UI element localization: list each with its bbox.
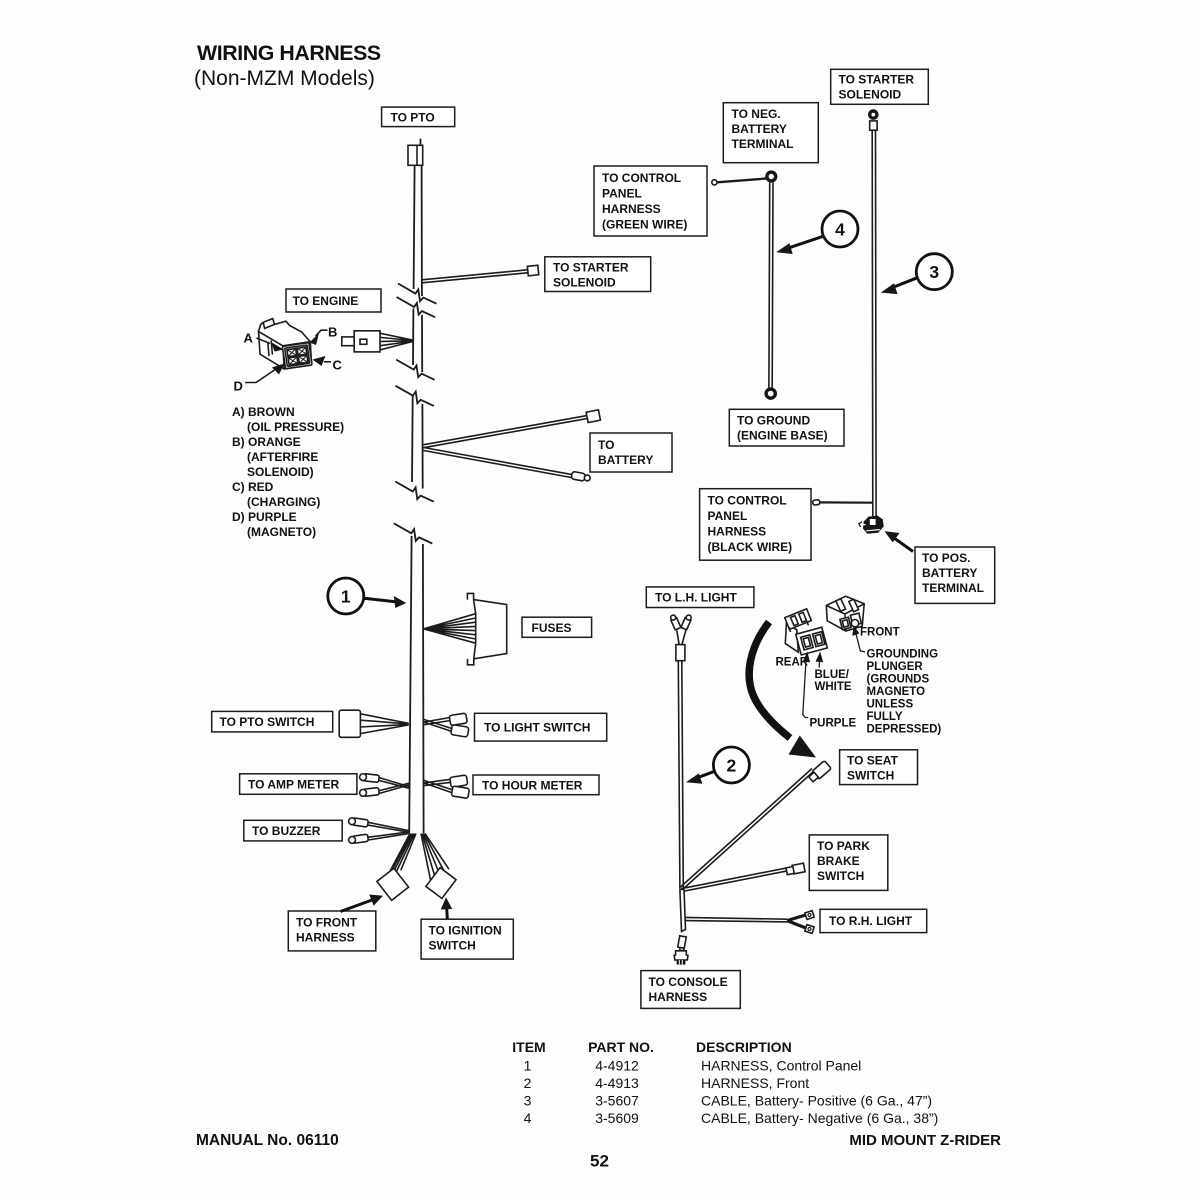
- bottom fan to front harness connector: [377, 834, 416, 901]
- pin label C: [313, 356, 343, 373]
- svg-text:TO STARTER: TO STARTER: [553, 260, 629, 274]
- amp meter bullets and wires: [359, 773, 409, 797]
- wire to battery (upper): [423, 410, 600, 448]
- wire harness main trunk (left line segments): [409, 165, 414, 833]
- svg-text:ITEM: ITEM: [512, 1039, 545, 1055]
- pin label B: [310, 325, 338, 346]
- hour meter plugs and wires: [423, 775, 469, 799]
- svg-text:4-4912: 4-4912: [595, 1058, 639, 1074]
- svg-text:4: 4: [835, 219, 845, 239]
- circled 1: [328, 578, 407, 614]
- circled 4 with arrow: [776, 211, 858, 254]
- svg-text:CABLE, Battery- Negative (6 Ga: CABLE, Battery- Negative (6 Ga., 38”): [701, 1110, 938, 1126]
- svg-text:TO NEG.: TO NEG.: [732, 107, 781, 121]
- svg-text:3-5609: 3-5609: [595, 1110, 639, 1126]
- svg-text:WHITE: WHITE: [815, 681, 852, 693]
- svg-text:TO AMP METER: TO AMP METER: [248, 778, 339, 792]
- bottom fan to ignition connector: [421, 834, 456, 899]
- wire to starter solenoid (mid): [422, 265, 539, 283]
- engine connector (4-pin isometric): [259, 319, 313, 369]
- svg-text:B: B: [328, 325, 337, 340]
- svg-text:TERMINAL: TERMINAL: [732, 137, 794, 151]
- svg-text:PLUNGER: PLUNGER: [867, 661, 924, 673]
- svg-text:BLUE/: BLUE/: [815, 669, 850, 681]
- label box TO HOUR METER: [473, 775, 599, 795]
- svg-text:(ENGINE BASE): (ENGINE BASE): [737, 428, 828, 442]
- svg-text:TO ENGINE: TO ENGINE: [293, 294, 359, 308]
- svg-text:1: 1: [341, 586, 351, 606]
- label box TO CONTROL PANEL HARNESS (GREEN WIRE): [594, 166, 707, 236]
- wire to park brake switch: [681, 863, 805, 891]
- leader blue/white: [816, 652, 824, 668]
- svg-text:HARNESS, Front: HARNESS, Front: [701, 1075, 809, 1091]
- svg-text:MANUAL No. 06110: MANUAL No. 06110: [196, 1132, 339, 1149]
- wire to battery (lower): [423, 447, 591, 482]
- label box TO AMP METER: [240, 774, 357, 795]
- break symbol at 481: [395, 482, 434, 502]
- connector at top (PTO plug): [408, 139, 423, 166]
- svg-text:52: 52: [590, 1152, 609, 1171]
- pin label A: [244, 331, 284, 352]
- ring terminal top of cable 3: [868, 109, 879, 130]
- label box TO CONTROL PANEL HARNESS (BLACK WIRE): [700, 489, 811, 561]
- svg-text:TO STARTER: TO STARTER: [839, 73, 915, 87]
- pin label D: [234, 364, 285, 394]
- svg-text:DEPRESSED): DEPRESSED): [867, 724, 942, 736]
- svg-text:TO PTO SWITCH: TO PTO SWITCH: [220, 715, 315, 729]
- svg-text:A) BROWN: A) BROWN: [232, 405, 295, 419]
- svg-text:4: 4: [524, 1110, 532, 1126]
- green wire from control panel box: [712, 179, 767, 185]
- wire to seat switch: [681, 761, 832, 890]
- svg-text:TO CONTROL: TO CONTROL: [602, 171, 681, 185]
- svg-text:FRONT: FRONT: [860, 627, 900, 639]
- label box TO CONSOLE HARNESS: [641, 971, 740, 1009]
- break symbol at 523: [394, 523, 433, 543]
- svg-text:FUSES: FUSES: [532, 621, 572, 635]
- svg-text:(Non-MZM Models): (Non-MZM Models): [194, 67, 375, 90]
- svg-text:SWITCH: SWITCH: [429, 939, 476, 953]
- light switch plugs and wires: [423, 713, 469, 737]
- ring terminal bottom of cable 4: [766, 389, 775, 398]
- label box TO STARTER SOLENOID (top): [831, 69, 929, 104]
- svg-text:TO PTO: TO PTO: [391, 110, 435, 124]
- svg-text:WIRING HARNESS: WIRING HARNESS: [197, 41, 381, 65]
- svg-text:(BLACK WIRE): (BLACK WIRE): [708, 540, 793, 554]
- title: [194, 41, 381, 90]
- fuses connector: [424, 593, 507, 664]
- svg-text:TO L.H. LIGHT: TO L.H. LIGHT: [655, 591, 737, 605]
- svg-text:TERMINAL: TERMINAL: [922, 581, 984, 595]
- front harness lower stub: [680, 890, 686, 932]
- front harness vertical wire: [678, 661, 683, 889]
- svg-text:UNLESS: UNLESS: [867, 699, 914, 711]
- cable 4 wire: [769, 183, 773, 388]
- label box TO BUZZER: [244, 820, 342, 841]
- svg-text:C) RED: C) RED: [232, 480, 274, 494]
- svg-text:SOLENOID): SOLENOID): [247, 465, 314, 479]
- label box TO LIGHT SWITCH: [475, 713, 607, 741]
- L.H. light fork terminals: [669, 614, 692, 661]
- svg-text:SOLENOID: SOLENOID: [553, 275, 616, 289]
- parts table: [512, 1039, 938, 1126]
- wire to R.H. light: [685, 911, 815, 934]
- engine plug on harness: [342, 331, 413, 352]
- REAR connector (isometric): [785, 609, 828, 655]
- svg-text:TO IGNITION: TO IGNITION: [429, 924, 502, 938]
- label box TO NEG. BATTERY TERMINAL: [723, 103, 818, 163]
- label box TO L.H. LIGHT: [646, 587, 754, 608]
- svg-text:(OIL PRESSURE): (OIL PRESSURE): [247, 420, 344, 434]
- label box TO IGNITION SWITCH: [421, 919, 513, 959]
- break symbol at 360: [396, 360, 435, 380]
- svg-text:BATTERY: BATTERY: [598, 453, 653, 467]
- cable 3 wire: [872, 130, 876, 517]
- svg-text:(MAGNETO): (MAGNETO): [247, 525, 316, 539]
- console harness connector: [674, 936, 688, 965]
- leader grounding plunger: [852, 625, 865, 652]
- arrow to front harness connector: [341, 895, 384, 912]
- svg-text:A: A: [244, 331, 254, 346]
- positive battery terminal clamp: [859, 516, 884, 534]
- svg-text:BRAKE: BRAKE: [817, 854, 860, 868]
- svg-text:(GROUNDS: (GROUNDS: [867, 674, 930, 686]
- black wire from control panel box to cable 3: [813, 500, 873, 506]
- svg-text:TO SEAT: TO SEAT: [847, 753, 899, 767]
- label box TO SEAT SWITCH: [840, 750, 918, 785]
- svg-text:TO LIGHT SWITCH: TO LIGHT SWITCH: [484, 720, 590, 734]
- svg-text:PANEL: PANEL: [602, 186, 642, 200]
- svg-text:TO PARK: TO PARK: [817, 839, 870, 853]
- svg-text:BATTERY: BATTERY: [922, 566, 977, 580]
- arrow to ignition connector: [441, 897, 453, 919]
- svg-text:GROUNDING: GROUNDING: [867, 649, 939, 661]
- svg-text:SOLENOID: SOLENOID: [839, 88, 902, 102]
- buzzer bullets and wires: [348, 817, 409, 844]
- svg-text:PANEL: PANEL: [708, 509, 748, 523]
- footer: [196, 1132, 1001, 1171]
- FRONT connector (isometric): [826, 596, 864, 631]
- break symbol pair upper: [397, 284, 437, 318]
- svg-text:(CHARGING): (CHARGING): [247, 495, 320, 509]
- svg-text:TO: TO: [598, 438, 614, 452]
- svg-text:MID MOUNT Z-RIDER: MID MOUNT Z-RIDER: [849, 1132, 1001, 1149]
- label box TO PARK BRAKE SWITCH: [809, 835, 888, 891]
- thick curved arrow: [749, 622, 816, 758]
- svg-text:FULLY: FULLY: [867, 711, 903, 723]
- svg-text:TO GROUND: TO GROUND: [737, 413, 810, 427]
- svg-text:3: 3: [929, 262, 939, 282]
- circled 3 with arrow: [881, 254, 953, 294]
- svg-text:SWITCH: SWITCH: [847, 768, 894, 782]
- ring terminal top of cable 4: [767, 172, 776, 181]
- svg-text:CABLE, Battery- Positive (6 Ga: CABLE, Battery- Positive (6 Ga., 47”): [701, 1093, 932, 1109]
- svg-text:D: D: [234, 379, 243, 394]
- label box TO GROUND (ENGINE BASE): [729, 409, 844, 446]
- svg-text:HARNESS: HARNESS: [602, 202, 661, 216]
- svg-text:3: 3: [524, 1093, 532, 1109]
- svg-text:PURPLE: PURPLE: [810, 718, 857, 730]
- svg-text:TO FRONT: TO FRONT: [296, 915, 358, 929]
- label box TO ENGINE: [286, 289, 381, 312]
- svg-text:3-5607: 3-5607: [595, 1093, 639, 1109]
- svg-text:TO HOUR METER: TO HOUR METER: [482, 779, 583, 793]
- svg-text:MAGNETO: MAGNETO: [867, 686, 926, 698]
- svg-text:TO CONSOLE: TO CONSOLE: [649, 975, 728, 989]
- label box TO PTO SWITCH: [212, 711, 333, 732]
- svg-text:TO CONTROL: TO CONTROL: [708, 493, 787, 507]
- svg-text:HARNESS: HARNESS: [296, 930, 355, 944]
- svg-text:TO R.H. LIGHT: TO R.H. LIGHT: [829, 914, 913, 928]
- connector area labels: [776, 627, 942, 736]
- label box TO BATTERY: [590, 433, 672, 472]
- label box TO STARTER SOLENOID (mid): [545, 257, 651, 292]
- wire harness main trunk (right line segments): [422, 165, 424, 833]
- wire color legend text: [232, 405, 344, 539]
- label box TO PTO: [382, 107, 455, 127]
- svg-text:HARNESS: HARNESS: [649, 990, 708, 1004]
- svg-text:DESCRIPTION: DESCRIPTION: [696, 1039, 792, 1055]
- arrow from TO POS. BATTERY TERMINAL box to clamp: [885, 531, 914, 551]
- svg-text:TO BUZZER: TO BUZZER: [252, 824, 321, 838]
- svg-text:HARNESS, Control Panel: HARNESS, Control Panel: [701, 1058, 861, 1074]
- svg-text:2: 2: [524, 1075, 532, 1091]
- svg-text:(AFTERFIRE: (AFTERFIRE: [247, 450, 318, 464]
- svg-text:4-4913: 4-4913: [595, 1075, 639, 1091]
- svg-text:HARNESS: HARNESS: [708, 524, 767, 538]
- leader purple: [803, 652, 810, 718]
- svg-text:C: C: [333, 358, 343, 373]
- svg-text:SWITCH: SWITCH: [817, 869, 864, 883]
- label box TO FRONT HARNESS: [288, 911, 376, 951]
- svg-text:D) PURPLE: D) PURPLE: [232, 510, 297, 524]
- svg-text:REAR: REAR: [776, 657, 809, 669]
- svg-text:1: 1: [524, 1058, 532, 1074]
- pto switch connector: [339, 710, 409, 737]
- circled 2 with arrow: [686, 747, 749, 784]
- label box TO R.H. LIGHT: [820, 909, 927, 932]
- break symbol at 386: [395, 386, 434, 406]
- label box TO POS. BATTERY TERMINAL: [915, 547, 995, 603]
- svg-text:B) ORANGE: B) ORANGE: [232, 435, 301, 449]
- label box FUSES: [522, 617, 592, 637]
- svg-text:(GREEN WIRE): (GREEN WIRE): [602, 217, 687, 231]
- svg-text:2: 2: [727, 755, 737, 775]
- svg-text:TO POS.: TO POS.: [922, 551, 970, 565]
- svg-text:BATTERY: BATTERY: [732, 122, 787, 136]
- svg-text:PART NO.: PART NO.: [588, 1039, 654, 1055]
